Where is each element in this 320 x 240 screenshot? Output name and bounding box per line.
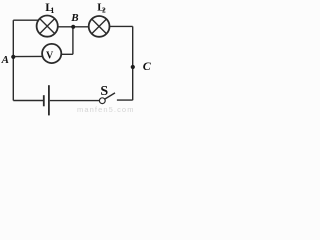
battery short plate (-) <box>43 95 45 106</box>
wire switch fixed contact to right corner <box>117 99 133 101</box>
wire node A to voltmeter left lead <box>13 55 42 57</box>
switch S pivot circle <box>99 98 105 104</box>
lamp L1 <box>37 16 58 37</box>
svg-text:S: S <box>100 84 108 99</box>
svg-text:C: C <box>143 59 152 73</box>
wire bottom-left corner to battery <box>13 100 43 102</box>
wire lamp L2 to right corner <box>110 25 133 27</box>
battery long plate (+) <box>48 85 50 115</box>
svg-text:1: 1 <box>50 6 54 15</box>
switch S blade <box>105 93 115 99</box>
svg-text:2: 2 <box>102 5 106 14</box>
lamp L2 <box>89 16 110 37</box>
node B junction dot <box>71 25 75 29</box>
node A junction dot <box>11 55 15 59</box>
wire battery to switch <box>50 100 100 102</box>
wire between L1 and L2 through node B <box>58 26 89 28</box>
wire left vertical A side <box>12 20 14 100</box>
svg-text:A: A <box>1 54 9 66</box>
wire node B down to voltmeter branch <box>72 27 74 55</box>
svg-text:B: B <box>70 12 78 24</box>
voltmeter V <box>42 44 61 63</box>
wire voltmeter right lead <box>61 53 73 55</box>
wire top-left to lamp L1 <box>13 19 38 21</box>
wire right vertical through node C <box>132 26 134 100</box>
node C junction dot <box>131 65 135 69</box>
svg-text:manfen5.com: manfen5.com <box>77 105 135 114</box>
svg-text:V: V <box>46 51 54 62</box>
